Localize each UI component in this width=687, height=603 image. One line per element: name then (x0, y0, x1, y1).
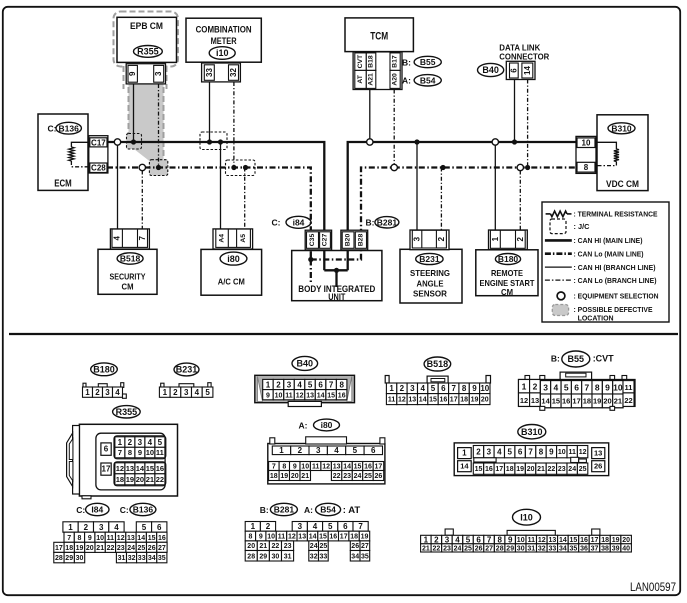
svg-text:1: 1 (279, 446, 284, 455)
svg-text:11: 11 (625, 383, 633, 392)
svg-text:8: 8 (584, 163, 589, 172)
svg-text:B180: B180 (93, 365, 115, 375)
svg-text:4: 4 (297, 380, 302, 389)
svg-text:14: 14 (309, 534, 317, 541)
svg-text:B310: B310 (611, 123, 632, 133)
svg-text:i10: i10 (216, 48, 229, 58)
svg-text:33: 33 (549, 545, 557, 552)
svg-text:17: 17 (55, 545, 63, 552)
svg-text:15: 15 (148, 535, 156, 542)
svg-text:30: 30 (272, 553, 280, 560)
svg-text:3: 3 (287, 380, 292, 389)
svg-text:3: 3 (413, 236, 422, 241)
svg-text:4: 4 (334, 446, 339, 455)
svg-text:26: 26 (475, 545, 483, 552)
svg-text:8: 8 (78, 535, 82, 542)
svg-text:2: 2 (437, 236, 446, 241)
svg-text:13: 13 (333, 464, 341, 471)
svg-text:18: 18 (65, 545, 73, 552)
svg-text:25: 25 (579, 466, 587, 473)
svg-text:B54: B54 (420, 75, 436, 85)
svg-text:8: 8 (497, 535, 502, 544)
svg-text:15: 15 (570, 537, 578, 544)
svg-text:7: 7 (138, 236, 147, 241)
svg-text:6: 6 (518, 448, 523, 457)
svg-text:26: 26 (351, 543, 359, 550)
svg-text:32: 32 (229, 68, 238, 77)
svg-text:A20: A20 (392, 73, 399, 86)
svg-text:5: 5 (564, 382, 569, 392)
svg-text:20: 20 (247, 543, 255, 550)
svg-text:26: 26 (375, 473, 383, 480)
svg-text:28: 28 (247, 553, 255, 560)
svg-text:SECURITY: SECURITY (110, 272, 146, 282)
svg-text:19: 19 (593, 397, 601, 406)
svg-text:32: 32 (128, 555, 136, 562)
svg-text:1: 1 (522, 382, 527, 392)
svg-text:LAN00597: LAN00597 (630, 580, 676, 594)
svg-text:B136: B136 (133, 505, 154, 515)
svg-text:B281: B281 (274, 505, 295, 515)
svg-text:27: 27 (361, 543, 369, 550)
svg-text:19: 19 (612, 537, 620, 544)
svg-text:B518: B518 (120, 254, 141, 264)
svg-text:3: 3 (105, 388, 110, 397)
svg-text:2: 2 (266, 522, 271, 531)
svg-text:19: 19 (361, 534, 369, 541)
svg-text:: CAN Lo (MAIN LINE): : CAN Lo (MAIN LINE) (574, 249, 644, 258)
svg-text:6: 6 (371, 446, 376, 455)
svg-text:16: 16 (485, 466, 493, 473)
svg-text:14: 14 (523, 66, 532, 75)
svg-text:23: 23 (117, 545, 125, 552)
svg-text:6: 6 (318, 380, 323, 389)
svg-text:22: 22 (433, 545, 441, 552)
svg-text:: CAN HI (BRANCH LINE): : CAN HI (BRANCH LINE) (574, 263, 656, 272)
svg-text:36: 36 (580, 545, 588, 552)
svg-text:2: 2 (298, 446, 303, 455)
svg-text:A/C CM: A/C CM (218, 277, 245, 287)
svg-text:13: 13 (306, 392, 314, 399)
svg-text:21: 21 (146, 475, 154, 484)
svg-text:17: 17 (102, 465, 111, 474)
svg-text:13: 13 (127, 535, 135, 542)
svg-text:24: 24 (454, 545, 462, 552)
svg-text:1: 1 (85, 388, 90, 397)
svg-text:30: 30 (517, 545, 525, 552)
svg-text:B281: B281 (377, 217, 398, 227)
svg-text:2: 2 (434, 535, 439, 544)
svg-text:9: 9 (266, 392, 270, 399)
svg-text:1: 1 (462, 449, 467, 458)
svg-text:11: 11 (156, 448, 164, 457)
svg-text:37: 37 (591, 545, 599, 552)
svg-text:9: 9 (508, 535, 513, 544)
svg-text:18: 18 (350, 534, 358, 541)
svg-text:16: 16 (580, 537, 588, 544)
svg-text:B:: B: (551, 354, 560, 364)
svg-text:2: 2 (128, 438, 133, 447)
svg-text:1: 1 (118, 438, 123, 447)
svg-text:19: 19 (76, 545, 84, 552)
svg-text:6: 6 (343, 522, 348, 531)
svg-text:4: 4 (455, 535, 460, 544)
svg-text:14: 14 (460, 462, 469, 471)
svg-text:19: 19 (280, 473, 288, 480)
svg-text:19: 19 (471, 397, 479, 404)
svg-text:31: 31 (118, 555, 126, 562)
svg-text:B:: B: (366, 218, 375, 228)
svg-text:5: 5 (308, 380, 313, 389)
svg-text:8: 8 (128, 448, 132, 457)
svg-text:10: 10 (146, 448, 154, 457)
svg-text:SENSOR: SENSOR (413, 288, 447, 298)
svg-text:26: 26 (148, 545, 156, 552)
svg-text:1: 1 (424, 535, 429, 544)
svg-text:14: 14 (343, 464, 351, 471)
svg-text:COMBINATION: COMBINATION (196, 25, 252, 36)
svg-text:20: 20 (291, 473, 299, 480)
svg-text:3: 3 (445, 535, 450, 544)
svg-text:6: 6 (441, 384, 446, 393)
svg-text:13: 13 (549, 537, 557, 544)
svg-text:9: 9 (605, 382, 610, 392)
svg-text:16: 16 (338, 392, 346, 399)
svg-text:18: 18 (116, 475, 124, 484)
svg-text:STEERING: STEERING (410, 268, 450, 278)
svg-text:7: 7 (272, 464, 276, 471)
svg-text:2: 2 (400, 384, 405, 393)
svg-text:A5: A5 (240, 234, 247, 243)
svg-text:25: 25 (364, 473, 372, 480)
svg-text:8: 8 (248, 534, 252, 541)
svg-text:B55: B55 (420, 57, 436, 67)
svg-text:24: 24 (354, 473, 362, 480)
svg-text:2: 2 (533, 382, 538, 392)
svg-text:24: 24 (310, 543, 318, 550)
svg-text:i80: i80 (227, 254, 240, 264)
svg-text:4: 4 (420, 384, 425, 393)
svg-text:18: 18 (601, 537, 609, 544)
svg-text:21: 21 (614, 397, 622, 406)
svg-text:25: 25 (464, 545, 472, 552)
svg-text:17: 17 (572, 397, 580, 406)
svg-text:B518: B518 (427, 359, 449, 369)
svg-text:2: 2 (276, 380, 281, 389)
svg-text:22: 22 (333, 473, 341, 480)
svg-text:A:: A: (402, 76, 411, 86)
svg-text:10: 10 (275, 392, 283, 399)
svg-text::CVT: :CVT (593, 354, 614, 364)
svg-text:18: 18 (506, 466, 514, 473)
svg-text:2: 2 (95, 388, 100, 397)
svg-text:40: 40 (622, 545, 630, 552)
svg-text:4: 4 (113, 236, 122, 241)
svg-text:9: 9 (128, 71, 137, 76)
svg-text:8: 8 (339, 380, 344, 389)
svg-text:4: 4 (497, 448, 502, 457)
svg-text:A:: A: (304, 505, 313, 515)
svg-text:: TERMINAL RESISTANCE: : TERMINAL RESISTANCE (574, 210, 658, 219)
svg-text:5: 5 (353, 446, 358, 455)
svg-text:17: 17 (450, 397, 458, 404)
svg-text:32: 32 (538, 545, 546, 552)
svg-text:A4: A4 (219, 234, 226, 243)
svg-text:C:: C: (120, 505, 129, 515)
svg-text:C:: C: (76, 505, 85, 515)
svg-text:TCM: TCM (370, 31, 388, 43)
svg-text:4: 4 (554, 382, 559, 392)
svg-text:6: 6 (574, 382, 579, 392)
svg-text:4: 4 (115, 388, 120, 397)
svg-text:20: 20 (622, 537, 630, 544)
svg-text:13: 13 (408, 397, 416, 404)
svg-text:9: 9 (472, 384, 477, 393)
svg-text:25: 25 (138, 545, 146, 552)
svg-text:5: 5 (158, 438, 163, 447)
svg-text:11: 11 (388, 397, 396, 404)
svg-text:19: 19 (516, 466, 524, 473)
svg-text:20: 20 (481, 397, 489, 404)
svg-text:38: 38 (601, 545, 609, 552)
svg-text:13: 13 (298, 534, 306, 541)
svg-text:B231: B231 (419, 254, 440, 264)
svg-text:8: 8 (595, 382, 600, 392)
svg-text:: CAN HI (MAIN LINE): : CAN HI (MAIN LINE) (574, 236, 643, 245)
svg-text:: EQUIPMENT SELECTION: : EQUIPMENT SELECTION (574, 292, 659, 301)
svg-text:20: 20 (136, 475, 144, 484)
svg-text:15: 15 (146, 464, 154, 473)
svg-text:35: 35 (361, 553, 369, 560)
svg-text:7: 7 (451, 384, 456, 393)
svg-text:14: 14 (317, 392, 325, 399)
svg-text:: AT: : AT (343, 505, 361, 516)
svg-text:REMOTE: REMOTE (491, 268, 523, 278)
svg-text:26: 26 (594, 462, 602, 471)
svg-text:14: 14 (541, 397, 550, 406)
svg-text:1: 1 (266, 380, 271, 389)
svg-text:CM: CM (122, 282, 134, 292)
svg-text:I84: I84 (91, 505, 103, 515)
svg-text:21: 21 (537, 466, 545, 473)
svg-text:17: 17 (375, 464, 383, 471)
svg-text:25: 25 (320, 543, 328, 550)
svg-text:CM: CM (501, 287, 513, 297)
svg-text:CONNECTOR: CONNECTOR (499, 52, 549, 62)
svg-text:B20: B20 (345, 234, 352, 247)
svg-text:B:: B: (402, 58, 411, 68)
svg-text:10: 10 (480, 384, 489, 393)
svg-text:29: 29 (259, 553, 267, 560)
svg-text:i84: i84 (293, 217, 305, 227)
svg-text:12: 12 (288, 534, 296, 541)
svg-text:33: 33 (205, 68, 214, 77)
svg-text:15: 15 (429, 397, 437, 404)
svg-text:12: 12 (296, 392, 304, 399)
svg-text:1: 1 (389, 384, 394, 393)
svg-text:B136: B136 (59, 123, 80, 133)
svg-text:33: 33 (320, 553, 328, 560)
svg-text:11: 11 (278, 534, 286, 541)
svg-text:B54: B54 (320, 505, 336, 515)
svg-text:C17: C17 (91, 138, 106, 147)
svg-text:11: 11 (312, 464, 320, 471)
svg-text:15: 15 (552, 397, 560, 406)
svg-text:11: 11 (528, 537, 536, 544)
svg-text:ANGLE: ANGLE (417, 278, 444, 288)
svg-text:23: 23 (443, 545, 451, 552)
svg-text:5: 5 (142, 523, 147, 532)
svg-text:9: 9 (549, 448, 554, 457)
svg-text:C28: C28 (91, 164, 106, 173)
svg-text:21: 21 (422, 545, 430, 552)
svg-text:18: 18 (583, 397, 591, 406)
svg-text:METER: METER (211, 36, 237, 47)
svg-text:2: 2 (84, 523, 89, 532)
svg-text:5: 5 (507, 448, 512, 457)
svg-text:7: 7 (487, 535, 492, 544)
svg-text:32: 32 (310, 553, 318, 560)
svg-text:10: 10 (582, 139, 591, 148)
svg-text:20: 20 (527, 466, 535, 473)
svg-text:: CAN Lo (BRANCH LINE): : CAN Lo (BRANCH LINE) (574, 276, 657, 285)
svg-text:16: 16 (562, 397, 570, 406)
svg-text:VDC CM: VDC CM (606, 179, 639, 190)
svg-text:8: 8 (462, 384, 467, 393)
svg-text:LOCATION: LOCATION (578, 314, 614, 323)
svg-text:AT: AT (357, 74, 364, 83)
svg-text:12: 12 (322, 464, 330, 471)
svg-text:17: 17 (591, 537, 599, 544)
svg-text:12: 12 (579, 449, 587, 456)
svg-text:22: 22 (272, 543, 280, 550)
svg-text:11: 11 (285, 392, 293, 399)
svg-text:28: 28 (55, 555, 63, 562)
svg-text:3: 3 (410, 384, 415, 393)
svg-text:16: 16 (158, 535, 166, 542)
svg-text:C35: C35 (309, 234, 316, 247)
svg-text:21: 21 (301, 473, 309, 480)
svg-text:23: 23 (284, 543, 292, 550)
svg-text:13: 13 (126, 464, 134, 473)
svg-text:7: 7 (358, 522, 363, 531)
svg-text:5: 5 (466, 535, 471, 544)
svg-text:33: 33 (138, 555, 146, 562)
svg-text:22: 22 (156, 475, 164, 484)
svg-text:11: 11 (107, 535, 115, 542)
svg-text:16: 16 (156, 464, 164, 473)
svg-text:3: 3 (99, 523, 104, 532)
svg-text:7: 7 (67, 535, 71, 542)
svg-text:35: 35 (158, 555, 166, 562)
svg-text:14: 14 (559, 537, 567, 544)
svg-text:9: 9 (259, 534, 263, 541)
svg-text:5: 5 (205, 388, 210, 397)
svg-text:5: 5 (431, 384, 436, 393)
svg-text:22: 22 (107, 545, 115, 552)
svg-text:13: 13 (531, 396, 539, 405)
svg-text:B:: B: (260, 505, 269, 515)
svg-text:B40: B40 (482, 65, 499, 75)
svg-text:17: 17 (340, 534, 348, 541)
svg-text:21: 21 (259, 543, 267, 550)
svg-text:20: 20 (86, 545, 94, 552)
svg-text:3: 3 (298, 522, 303, 531)
svg-text:14: 14 (419, 397, 427, 404)
svg-text:31: 31 (284, 553, 292, 560)
svg-text:4: 4 (195, 388, 200, 397)
svg-text:11: 11 (568, 449, 576, 456)
svg-text:9: 9 (293, 464, 297, 471)
svg-text:A21: A21 (368, 73, 375, 86)
svg-text:B310: B310 (521, 427, 543, 437)
svg-text:2: 2 (516, 236, 525, 241)
svg-text:35: 35 (570, 545, 578, 552)
svg-text:28: 28 (496, 545, 504, 552)
svg-text:12: 12 (520, 396, 528, 405)
svg-text:R355: R355 (137, 47, 159, 57)
svg-text:5: 5 (328, 522, 333, 531)
svg-text:24: 24 (127, 545, 135, 552)
svg-text:34: 34 (351, 553, 359, 560)
svg-text:UNIT: UNIT (328, 292, 345, 302)
svg-text:22: 22 (624, 396, 632, 405)
svg-text:31: 31 (527, 545, 535, 552)
svg-text:8: 8 (539, 448, 544, 457)
svg-text:3: 3 (184, 388, 189, 397)
svg-text:15: 15 (327, 392, 335, 399)
svg-text:EPB CM: EPB CM (130, 21, 163, 32)
svg-text:3: 3 (316, 446, 321, 455)
svg-text:B17: B17 (392, 55, 399, 68)
svg-text:34: 34 (148, 555, 156, 562)
svg-text:ECM: ECM (54, 179, 72, 190)
svg-text:C:: C: (48, 124, 57, 134)
svg-text:4: 4 (313, 522, 318, 531)
svg-text:23: 23 (343, 473, 351, 480)
svg-text:10: 10 (267, 534, 275, 541)
svg-text:B55: B55 (568, 354, 585, 364)
svg-text:12: 12 (117, 535, 125, 542)
svg-text:B40: B40 (297, 359, 314, 369)
svg-text:6: 6 (104, 445, 109, 454)
svg-text:7: 7 (585, 382, 590, 392)
svg-text:2: 2 (173, 388, 178, 397)
svg-text:7: 7 (329, 380, 334, 389)
svg-text:27: 27 (158, 545, 166, 552)
svg-text:6: 6 (509, 68, 518, 73)
svg-text:3: 3 (487, 448, 492, 457)
svg-text:23: 23 (558, 466, 566, 473)
svg-text:16: 16 (440, 397, 448, 404)
svg-text:29: 29 (65, 555, 73, 562)
svg-text:B231: B231 (176, 365, 198, 375)
svg-text:8: 8 (282, 464, 286, 471)
svg-text:4: 4 (114, 523, 119, 532)
svg-text:6: 6 (157, 523, 162, 532)
svg-text:15: 15 (475, 466, 483, 473)
svg-text:16: 16 (364, 464, 372, 471)
svg-text:10: 10 (301, 464, 309, 471)
svg-text:1: 1 (68, 523, 73, 532)
svg-text:CVT: CVT (357, 54, 364, 68)
svg-text:29: 29 (506, 545, 514, 552)
svg-text:9: 9 (138, 448, 142, 457)
svg-text:10: 10 (558, 449, 566, 456)
svg-text:12: 12 (398, 397, 406, 404)
svg-text:34: 34 (559, 545, 567, 552)
svg-text:3: 3 (543, 382, 548, 392)
